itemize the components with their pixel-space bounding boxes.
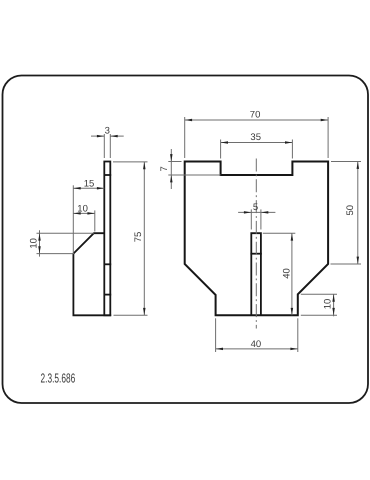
dimension 75: dimension line bbox=[143, 162, 145, 315]
dimension 50: dimension line bbox=[357, 162, 359, 265]
svg-text:70: 70 bbox=[250, 109, 261, 120]
dimension 7: extension lines bbox=[168, 161, 181, 163]
dimension 50: arrowheads bbox=[357, 162, 360, 169]
dimension 15: extension line bbox=[72, 185, 74, 253]
svg-text:75: 75 bbox=[133, 232, 144, 243]
dimension 5: extension lines bbox=[250, 209, 252, 229]
dimension 10 horizontal: arrowheads bbox=[73, 212, 80, 215]
dimension 70: extension lines bbox=[184, 117, 186, 158]
dimension 3: dimension line bbox=[91, 135, 104, 137]
dimension 10 horizontal: extension line bbox=[94, 210, 96, 231]
plate edge line (foot step) bbox=[104, 294, 112, 296]
dimension 10 right: dimension line bbox=[333, 294, 335, 316]
drawing sheet border bbox=[3, 76, 369, 404]
dimension 40 slot: dimension line bbox=[291, 233, 293, 315]
svg-text:50: 50 bbox=[345, 205, 356, 216]
svg-text:10: 10 bbox=[28, 238, 39, 249]
dimension 35: arrowheads bbox=[221, 141, 228, 144]
dimension 35: extension lines bbox=[220, 140, 222, 159]
dimension 40 slot: extension line bbox=[263, 232, 296, 234]
plate edge line (notch depth) bbox=[104, 174, 112, 176]
front view outline bbox=[185, 162, 328, 316]
dimension 15: arrowheads bbox=[73, 187, 80, 190]
plate edge line (taper start) bbox=[104, 263, 112, 265]
dimension 10 horizontal: dimension line bbox=[73, 212, 95, 214]
svg-text:15: 15 bbox=[84, 178, 95, 189]
dimension 40 bottom: extension lines bbox=[215, 318, 217, 352]
dimension 10 vertical left: arrowheads bbox=[38, 233, 41, 240]
dimension 50: extension lines bbox=[331, 161, 361, 163]
dimension 35: dimension line bbox=[221, 142, 293, 144]
side view plate outline bbox=[104, 162, 110, 316]
slot edge line bbox=[250, 253, 261, 255]
dimension 15: dimension line bbox=[73, 187, 104, 189]
dimension 10 vertical left: extension lines bbox=[37, 232, 94, 234]
dimension 10 vertical left: dimension line bbox=[39, 230, 41, 256]
svg-text:2.3.5.686: 2.3.5.686 bbox=[41, 371, 76, 386]
side view block outline with chamfer bbox=[73, 233, 111, 315]
dimension 40 bottom: arrowheads bbox=[216, 348, 223, 351]
dimension 10 right: extension lines bbox=[301, 293, 337, 295]
svg-text:7: 7 bbox=[159, 166, 170, 171]
svg-text:3: 3 bbox=[105, 126, 110, 137]
dimension 3: extension lines bbox=[103, 134, 105, 158]
svg-text:40: 40 bbox=[282, 268, 293, 279]
dimension 7: arrowheads bbox=[170, 154, 173, 161]
dimension 3: arrowheads bbox=[97, 135, 104, 138]
dimension 40 bottom: dimension line bbox=[216, 348, 298, 350]
dimension 5: arrowheads bbox=[244, 211, 251, 214]
dimension 75: extension lines bbox=[113, 161, 148, 163]
centerline bbox=[255, 159, 257, 329]
dimension 40 slot: arrowheads bbox=[291, 233, 294, 240]
svg-text:5: 5 bbox=[253, 202, 258, 213]
dimension 70: arrowheads bbox=[185, 119, 192, 122]
slot outline bbox=[251, 233, 261, 315]
svg-text:35: 35 bbox=[250, 132, 261, 143]
svg-text:10: 10 bbox=[323, 299, 334, 310]
dimension 7: dimension line bbox=[170, 149, 172, 189]
svg-text:10: 10 bbox=[77, 204, 88, 215]
dimension 5: dimension line bbox=[238, 211, 275, 213]
dimension 70: dimension line bbox=[185, 119, 328, 121]
dimension 75: arrowheads bbox=[143, 162, 146, 169]
svg-text:40: 40 bbox=[251, 339, 262, 350]
dimension 10 right: arrowheads bbox=[332, 294, 335, 301]
